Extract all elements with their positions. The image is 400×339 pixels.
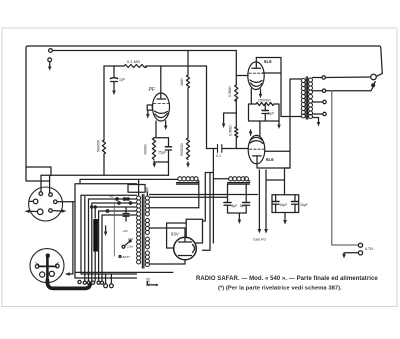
tube1 lead to coupling box <box>250 89 252 104</box>
svg-text:1MΩ: 1MΩ <box>180 78 184 86</box>
svg-text:BATT: BATT <box>123 255 131 259</box>
tube PF <box>153 93 170 121</box>
caption <box>196 276 378 292</box>
transformer ground <box>313 118 319 123</box>
power transformer core <box>142 195 144 269</box>
svg-text:50000Ω: 50000Ω <box>180 143 184 156</box>
plate wire tube1 to transformer <box>256 58 301 117</box>
svg-text:PF: PF <box>149 87 156 93</box>
capacitor 5uF <box>262 110 269 112</box>
svg-text:0,1: 0,1 <box>216 154 221 158</box>
cathode arrow tube2 up <box>250 133 252 135</box>
coupling box 25k / 5uF <box>249 104 280 121</box>
frame top edge <box>26 46 382 76</box>
bus segment y172.5 <box>205 172 213 174</box>
wire vertical x188 <box>187 51 189 164</box>
capacitor 0.1 <box>218 145 222 153</box>
box corner to bus <box>168 162 170 175</box>
cathode arrow PF <box>165 121 167 126</box>
tube 6L6 no.2 <box>248 135 265 163</box>
svg-text:25μF: 25μF <box>158 151 167 155</box>
arrow in box <box>105 226 107 231</box>
wire frame y181 stub <box>26 180 50 182</box>
bus wires inside box <box>89 199 137 281</box>
svg-text:4000Ω: 4000Ω <box>144 144 148 155</box>
svg-text:16μF: 16μF <box>300 203 308 207</box>
frame left edge <box>25 48 27 181</box>
arrow right socket1 <box>62 209 67 213</box>
svg-text:0,5MΩ: 0,5MΩ <box>229 125 233 136</box>
fuse box <box>128 185 145 193</box>
terminal A.TEL 1 <box>358 243 362 247</box>
long wire right side <box>332 91 358 245</box>
output transformer primary <box>301 79 305 119</box>
grid cap PF <box>151 105 153 108</box>
Cam FG wires <box>258 170 260 229</box>
socket S1 <box>29 187 63 221</box>
tube2 lead from coupling box <box>259 121 261 136</box>
arrow left socket1 <box>25 210 30 214</box>
speaker terminal 1 <box>371 74 377 80</box>
black component <box>93 219 98 252</box>
cathode arrow tube1 <box>260 89 262 94</box>
terminals bottom <box>78 280 81 283</box>
svg-text:6L6: 6L6 <box>266 157 274 162</box>
cathode network box <box>155 121 157 138</box>
vertical x210 <box>203 173 211 251</box>
svg-text:+6V: +6V <box>123 229 128 233</box>
resistor 0.1M ohm <box>124 65 146 68</box>
wire socket1 to bottom <box>67 202 73 274</box>
svg-text:6AF: 6AF <box>128 237 134 241</box>
svg-text:5μF: 5μF <box>268 112 275 116</box>
tube 83V <box>174 237 197 260</box>
wire W1 input <box>52 50 236 52</box>
svg-text:(*) (Per la parte rivelatrice: (*) (Per la parte rivelatrice vedi schem… <box>218 286 342 292</box>
svg-text:1μF: 1μF <box>119 78 126 82</box>
terminal A.TEL 2 <box>358 251 362 255</box>
capacitor 16uF left <box>272 201 279 203</box>
speaker terminal 2 <box>372 84 375 87</box>
svg-text:500000: 500000 <box>97 140 101 152</box>
svg-text:2,5A: 2,5A <box>127 245 133 249</box>
capacitor 16uF right <box>292 201 299 203</box>
16uF ground <box>284 213 286 220</box>
speaker tap 3 <box>313 101 323 103</box>
resistor 500000 ohm vertical <box>102 140 105 154</box>
speaker tap 1 <box>313 76 371 79</box>
grid wire tube1 <box>236 75 248 77</box>
+B terminals <box>116 198 119 201</box>
16uF box <box>272 195 299 213</box>
bus wire y175.2 <box>41 174 168 176</box>
socket S2 <box>30 249 64 283</box>
plate wire tube2 to transformer <box>257 79 302 168</box>
resistor 0.5M ohm lower <box>235 127 238 138</box>
svg-text:16μF: 16μF <box>280 203 288 207</box>
resistor 25k ohm <box>256 103 274 106</box>
svg-text:β: β <box>146 188 149 194</box>
wire W2 horizontal <box>104 65 207 67</box>
8uF bottom wire + ground <box>228 213 247 219</box>
grid chain vertical x236.3 <box>235 51 237 149</box>
svg-text:0,1 MΩ: 0,1 MΩ <box>127 59 140 64</box>
choke A <box>178 177 198 181</box>
screen wire tube1 <box>263 72 281 74</box>
wire frame bend y167 to pin2 riser <box>26 167 51 175</box>
transformer top leads <box>139 179 148 195</box>
bus y197.2 <box>150 196 228 198</box>
cable socket2 <box>46 257 49 283</box>
wire PF plate <box>160 66 162 94</box>
ground arrow under box <box>153 162 155 164</box>
bottom long wire <box>75 271 173 273</box>
wire left vertical x104 <box>103 66 105 175</box>
wire riser pin1 <box>40 175 42 191</box>
choke B <box>229 177 249 181</box>
speaker tap 2 <box>313 87 374 91</box>
resistor 1M ohm vertical <box>186 75 189 88</box>
svg-text:RADIO SAFAR. — Mod. « 540 ». —: RADIO SAFAR. — Mod. « 540 ». — Parte fin… <box>196 276 378 282</box>
vertical x205.3 <box>203 173 206 222</box>
capacitor 25uF <box>165 146 171 148</box>
junction wire with ground arrow <box>224 113 237 124</box>
rectifier wiring <box>150 228 186 242</box>
Cy capacitor <box>123 213 129 215</box>
svg-text:8μF: 8μF <box>232 204 238 208</box>
ground arrow at coupling box corner <box>278 121 280 125</box>
power transformer left winding <box>137 196 141 264</box>
speaker tap 4 <box>313 113 323 115</box>
7865 pointer <box>147 282 155 285</box>
supply outer box <box>75 184 137 278</box>
svg-text:0,5MΩ: 0,5MΩ <box>228 86 232 97</box>
output transformer core <box>306 77 307 119</box>
rectifier box <box>186 219 202 243</box>
output transformer secondary <box>309 78 313 119</box>
svg-text:A.TEL: A.TEL <box>365 247 374 251</box>
terminal T2 <box>48 58 52 62</box>
wire x206.5 vertical <box>206 66 208 149</box>
wire y179.4 to transformer and choke A <box>80 179 178 183</box>
bus y194.5 <box>150 194 258 196</box>
tube 6L6 no.1 <box>248 62 264 90</box>
svg-text:+B: +B <box>109 195 114 199</box>
svg-text:8μF: 8μF <box>240 204 246 208</box>
capacitor 8uF right <box>243 184 250 213</box>
arrow end x188 <box>186 163 190 168</box>
resistor 0.5M ohm upper <box>235 85 238 101</box>
capacitor 8uF left <box>224 184 231 213</box>
capacitor 1uF <box>113 66 115 77</box>
wire riser pin2 <box>49 175 51 192</box>
svg-text:7865: 7865 <box>146 277 151 287</box>
power transformer right winding <box>145 196 149 267</box>
resistor 50000 ohm vertical <box>186 138 189 159</box>
supply inner box <box>81 195 137 274</box>
wire to 16uF box <box>266 168 290 195</box>
resistor 4000 ohm <box>152 138 155 159</box>
ground arrow under T2 <box>49 62 51 67</box>
terminal T1 <box>49 49 53 53</box>
svg-text:25000Ω: 25000Ω <box>258 99 271 103</box>
screen wire tube2 <box>265 150 290 152</box>
vertical x213.4 <box>212 149 214 244</box>
svg-text:6L6: 6L6 <box>264 59 272 64</box>
svg-text:Cam.FG: Cam.FG <box>253 238 266 242</box>
coupling wire y148.5 with cap 0.1 <box>207 148 249 150</box>
svg-text:83V: 83V <box>171 232 179 237</box>
switch <box>122 245 125 248</box>
